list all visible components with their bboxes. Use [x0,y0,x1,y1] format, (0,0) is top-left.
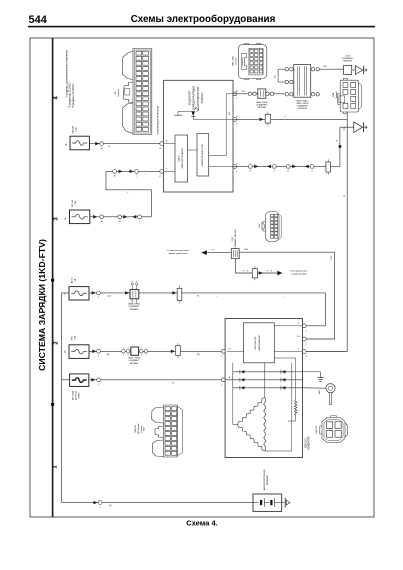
inline connector on top wire [258,89,266,98]
small connector box D wire [265,114,270,123]
left column divider (thick) [52,38,54,517]
generator box [225,319,302,458]
cluster pin right 3 [233,165,237,169]
voltage regulator box [244,323,275,363]
svg-text:18: 18 [159,148,161,150]
C107 junction box [231,249,239,259]
diode on IGN wire [171,350,175,354]
svg-text:1-В: 1-В [107,295,111,297]
svg-text:8: 8 [312,171,313,173]
wire L out of regulator [274,351,302,353]
bridge right rail [291,372,293,388]
wire micro to pin right3 [209,165,233,167]
connector circle L1 [113,170,117,174]
small connector box IGN wire [176,346,181,356]
field winding zigzag [295,400,297,416]
svg-text:4: 4 [236,98,237,100]
long riser to generator L [346,119,348,351]
stub from connector 2/1B [346,112,348,119]
wire L to cluster [106,170,164,172]
wire cluster pin2 to riser [233,118,347,120]
svg-text:РАЗЪЕМ: РАЗЪЕМ [343,59,352,62]
wire LED to pin [192,116,194,119]
connector circle GAUGE wire [100,142,104,146]
svg-text:17: 17 [159,176,161,178]
wire between inner boxes [188,149,198,151]
diode on D wire [259,118,263,122]
connector circle battery wire [98,501,102,505]
riser to generator S terminal [324,293,326,326]
diode g2 [267,165,271,169]
ground symbol E1 (triangle) [354,122,363,133]
svg-text:управл. двигателем: управл. двигателем [168,253,188,255]
inner box power supply circuit [175,135,188,182]
svg-text:544: 544 [29,14,48,26]
stator winding 3 [264,398,266,452]
bridge row1 to box edge [292,371,303,373]
bridge row3 [233,387,303,389]
section tick 2 [51,403,54,406]
svg-text:Белый: Белый [335,91,338,98]
inner box microprocessor [197,134,209,176]
wire elbow horizontal [106,189,151,191]
arrow to engine ECU [201,250,207,255]
wire pin L into box [164,170,176,172]
generator pin S [302,324,306,328]
connector circle ALT-S [97,291,101,295]
svg-text:С107: С107 [232,237,234,242]
cluster pin right 2 [233,118,237,122]
generator pin B left [221,378,225,382]
svg-text:1Я: 1Я [197,354,200,356]
connector circle L2 [135,170,139,174]
svg-text:ИНДИКАТОР: ИНДИКАТОР [189,90,192,105]
rail to regulator right [291,363,293,372]
charge indicator LED [191,111,195,116]
svg-text:РАЗЪЕМ: РАЗЪЕМ [258,106,267,109]
tap bottom vertex [265,450,292,452]
wire to pin right1 [226,93,233,95]
battery bus vertical [61,293,63,503]
wire to ground symbol E1 [340,126,354,128]
svg-text:GB1, GB2: GB1, GB2 [233,55,235,66]
svg-text:ГЕНЕРАТОР: ГЕНЕРАТОР [308,436,311,450]
BAT ring terminal [326,384,335,393]
wire to C10E [319,68,343,70]
svg-text:2: 2 [221,384,222,386]
tap to left vertex [232,388,234,425]
rail to regulator left [232,363,234,372]
diode ALT-S [92,291,96,295]
wire C107 to engine ECU arrow [207,252,232,254]
fuse ECU-B 7.5A [70,210,90,224]
svg-text:ALT 100A: ALT 100A [72,390,75,400]
svg-text:РАЗЪЕМ: РАЗЪЕМ [130,308,139,311]
svg-text:Схемы электрооборудования: Схемы электрооборудования [131,14,276,25]
field top connection [274,357,295,359]
svg-text:кондиционером: кондиционером [291,274,307,276]
svg-text:Черный: Черный [117,88,120,97]
svg-text:ALT-S: ALT-S [70,277,73,283]
bridge row2 [225,379,302,381]
ground riser [339,127,341,166]
diode at connector block ALT-S [125,291,129,295]
svg-text:1: 1 [221,356,222,358]
generator ground bars [317,377,323,379]
svg-text:ЗАРЯДКИ/РАЗРЯДКИ: ЗАРЯДКИ/РАЗРЯДКИ [193,86,196,110]
svg-text:АККУМУЛЯТОРНОЙ: АККУМУЛЯТОРНОЙ [197,86,200,109]
wire fuse ECU-B [90,216,152,218]
wire elbow vertical 2 [150,190,152,217]
wire into generator S [303,325,326,327]
battery cells [253,502,259,504]
battery box [253,494,282,511]
svg-text:РАЗЪЕМ: РАЗЪЕМ [130,362,139,365]
svg-text:GW-101: GW-101 [316,425,318,434]
svg-text:3: 3 [236,171,237,173]
inline connector block on IGN wire [131,347,139,355]
battery bus bottom horizontal [62,502,254,504]
stator winding 1 [238,398,265,425]
svg-text:З: З [98,384,99,386]
connector circle ECU-B 2 [118,215,122,219]
GW-101 connector pictorial [320,416,348,443]
wire C107 to generator IG riser [239,251,334,253]
diode L wire b [130,170,134,174]
junction right pair row3a [311,93,314,96]
svg-text:Белый: Белый [235,57,238,64]
engine harness connector pictorial [152,405,183,457]
diode on GAUGE wire [95,142,99,146]
battery ground symbol [284,498,286,508]
svg-text:ECU-B: ECU-B [72,200,74,207]
diode on B wire [91,378,95,382]
svg-text:АККУМУЛЯТОРНАЯ: АККУМУЛЯТОРНАЯ [263,469,266,490]
diode battery wire [93,501,97,505]
stub row2 [278,81,285,83]
svg-text:1Ж: 1Ж [65,350,67,353]
svg-text:РАЗЪЕМ: РАЗЪЕМ [298,107,307,110]
svg-text:1М: 1М [106,354,109,356]
connector 2/1B pictorial [338,78,362,113]
svg-text:8: 8 [274,171,275,173]
diode ECU-B a [123,215,127,219]
svg-text:4: 4 [306,330,307,332]
connector circle B wire [97,378,101,382]
diode L wire a [119,170,123,174]
battery to ground [282,502,285,504]
svg-text:З: З [98,356,99,358]
svg-text:СОЕДИНИТ. РАЗЪЕМ: СОЕДИНИТ. РАЗЪЕМ [234,229,237,249]
svg-text:GW-101: GW-101 [135,424,137,433]
circle g1 [249,165,253,169]
diode IGN wire [92,350,96,354]
svg-text:С107: С107 [259,223,261,229]
wire to generator ground [303,371,321,373]
svg-text:2Г: 2Г [249,171,251,173]
svg-text:7.5A: 7.5A [74,201,77,206]
connector GB2 pictorial [238,43,266,80]
diode before small box ALT-S wire [172,291,176,295]
inline connector block on ALT-S wire [130,290,139,299]
bridge left rail [232,372,234,388]
svg-text:Схема 4.: Схема 4. [186,518,217,527]
C10E junction box [344,65,352,74]
stub row1 [278,68,285,70]
bracket rows 1-2 [277,69,279,82]
fuse GAUGE 7.5A [70,136,89,150]
fuse ALT-S 5A [69,287,89,300]
diode ECU-B b [132,215,136,219]
wire ALT-S to generator S [89,292,325,294]
junction box left pins [285,68,288,71]
svg-text:2: 2 [100,507,101,509]
svg-text:СИСТЕМА ЗАРЯДКИ (1KD-FTV): СИСТЕМА ЗАРЯДКИ (1KD-FTV) [37,239,47,371]
generator pin L [302,350,306,354]
svg-text:IGN: IGN [71,336,73,340]
cluster pin L [160,170,164,174]
svg-text:Блок управления: Блок управления [291,271,308,273]
wire generator L to riser [303,351,348,353]
wire cluster pin3 ground [233,165,340,167]
generator pin left IG2 [221,349,225,353]
fusible link ALT 100A [70,374,89,387]
svg-text:1: 1 [306,344,307,346]
svg-text:З: З [98,297,99,299]
svg-text:ЭЛЕКТРОПИТАНИЯ: ЭЛЕКТРОПИТАНИЯ [181,148,184,169]
svg-text:1: 1 [236,124,237,126]
ground symbol (C10E) [355,66,362,75]
instrument cluster block [164,80,234,192]
wire fusible link to generator B [89,379,223,381]
svg-text:НАПРЯЖЕНИЯ: НАПРЯЖЕНИЯ [258,335,261,351]
svg-text:ЭБ2 Белый: ЭБ2 Белый [137,423,140,435]
svg-text:КОМБИНАЦИЯ ПРИБОРОВ: КОМБИНАЦИЯ ПРИБОРОВ [157,105,160,134]
circle g3 [286,165,290,169]
wire C107 down to AC branch [234,259,236,274]
svg-text:*3 модели с 10.2002 г.: *3 модели с 10.2002 г. [72,83,75,108]
wire IG left into regulator [227,350,244,352]
small connector box ALT-S wire [177,288,182,300]
small box on ground wire [326,162,331,172]
small connector box AC branch [252,269,257,278]
svg-text:МИКРОПРОЦЕССОР: МИКРОПРОЦЕССОР [202,144,204,166]
internal ground tap [178,110,191,112]
fuse IGN 7.5A [69,345,89,359]
wire to BAT terminal [303,387,326,389]
svg-text:GAUGE: GAUGE [71,125,74,133]
svg-text:3: 3 [306,356,307,358]
diode g4 [305,165,309,169]
svg-text:К электронному блоку: К электронному блоку [167,250,189,252]
wire S into regulator area [277,325,303,327]
cluster pin B+ [160,142,164,146]
wire pin B+ into box [164,143,176,145]
cluster pin right 1 [233,92,237,96]
connector circle IGN [97,349,101,353]
wire bus to fusible link [62,379,70,381]
wire bus to ALT-S fuse [62,292,70,294]
svg-text:(GW-101): (GW-101) [305,438,307,448]
wire elbow vertical [105,171,107,189]
svg-text:7.5A: 7.5A [73,336,76,341]
rotor field winding [295,358,297,400]
svg-text:БАТАРЕИ: БАТАРЕИ [201,92,204,103]
cluster multi-pin connector pictorial [123,49,152,135]
junction box right pins [311,68,314,71]
junction box [294,65,311,98]
svg-text:Ш: Ш [236,91,238,93]
wire AC branch [235,272,277,274]
svg-text:2: 2 [136,176,137,178]
C107 pictorial connector [263,212,281,242]
svg-text:7.5A: 7.5A [74,127,77,132]
stator winding 2 [238,425,265,452]
wire IGN to generator [89,350,223,352]
svg-text:2/1В: 2/1В [333,92,335,97]
wire fuse GAUGE to cluster B+ [89,143,163,145]
svg-text:ALT-H 5A: ALT-H 5A [74,390,77,399]
svg-text:РЕГУЛЯТОР: РЕГУЛЯТОР [255,336,257,349]
svg-text:(БПР): (БПР) [78,392,80,398]
diode AC branch [259,271,263,275]
generator pin IG [302,337,306,341]
svg-text:ЦЕПЬ: ЦЕПЬ [178,155,180,162]
svg-text:Разъем: Разъем [141,425,143,433]
riser C107 to generator IG [334,252,336,339]
svg-text:Черный: Черный [261,221,264,229]
svg-text:2Г: 2Г [287,171,289,173]
bridge row1 [233,371,292,373]
wire generator IG [303,338,335,340]
section tick 1 [51,279,54,282]
svg-text:2: 2 [139,221,140,223]
splice tick [339,145,342,148]
center phase tap [264,363,266,398]
arrow to AC control unit [277,271,282,276]
diode ECU-B wire [93,215,97,219]
diagram frame [30,38,374,517]
connector circle ECU-B 3 [138,215,142,219]
wire cluster pin1 to junction [233,93,286,95]
svg-text:ЭБУ: ЭБУ [144,426,146,431]
connector circle ECU-B 1 [100,215,104,219]
svg-text:БАТАРЕЯ: БАТАРЕЯ [266,475,269,485]
header rule [28,26,375,28]
